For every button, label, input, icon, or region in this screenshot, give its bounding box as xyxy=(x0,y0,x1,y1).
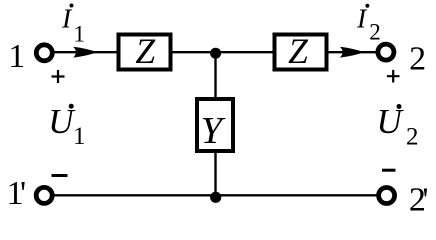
wire: bottom terminal 1' to terminal 2' xyxy=(50,194,381,196)
terminal 2' xyxy=(379,188,395,204)
svg-text:1: 1 xyxy=(73,123,86,150)
plus sign at terminal 2 xyxy=(387,70,400,83)
svg-text:1: 1 xyxy=(8,38,25,75)
impedance Z2 box xyxy=(275,35,327,70)
svg-text:1': 1' xyxy=(7,175,27,212)
terminal 1' xyxy=(36,187,52,203)
wire: Z1 to node A xyxy=(170,51,217,53)
wire: node A to Z2 xyxy=(214,51,276,53)
node A junction dot xyxy=(210,48,221,59)
minus sign at terminal 2' xyxy=(382,169,396,172)
svg-text:2: 2 xyxy=(406,124,419,151)
impedance Z1 box xyxy=(119,35,171,70)
svg-text:1: 1 xyxy=(74,22,86,47)
svg-text:2: 2 xyxy=(369,20,381,45)
wire: Y down to node B xyxy=(214,149,216,196)
svg-text:2: 2 xyxy=(409,40,426,77)
wire: terminal 1 to Z1 xyxy=(50,51,120,53)
node B junction dot xyxy=(210,192,221,203)
admittance Y box xyxy=(197,99,233,151)
svg-text:2': 2' xyxy=(409,181,429,217)
wire: node A down to Y xyxy=(214,52,216,101)
plus sign at terminal 1 xyxy=(52,70,65,83)
svg-text:Y: Y xyxy=(201,110,226,152)
svg-text:Z: Z xyxy=(288,31,309,71)
current arrow I1 xyxy=(73,47,97,58)
minus sign at terminal 1' xyxy=(52,174,68,177)
svg-text:Z: Z xyxy=(135,31,156,71)
terminal 1 xyxy=(36,45,52,61)
terminal 2 xyxy=(378,44,394,60)
current arrow I2 xyxy=(340,47,364,58)
wire: Z2 to terminal 2 xyxy=(326,51,378,53)
